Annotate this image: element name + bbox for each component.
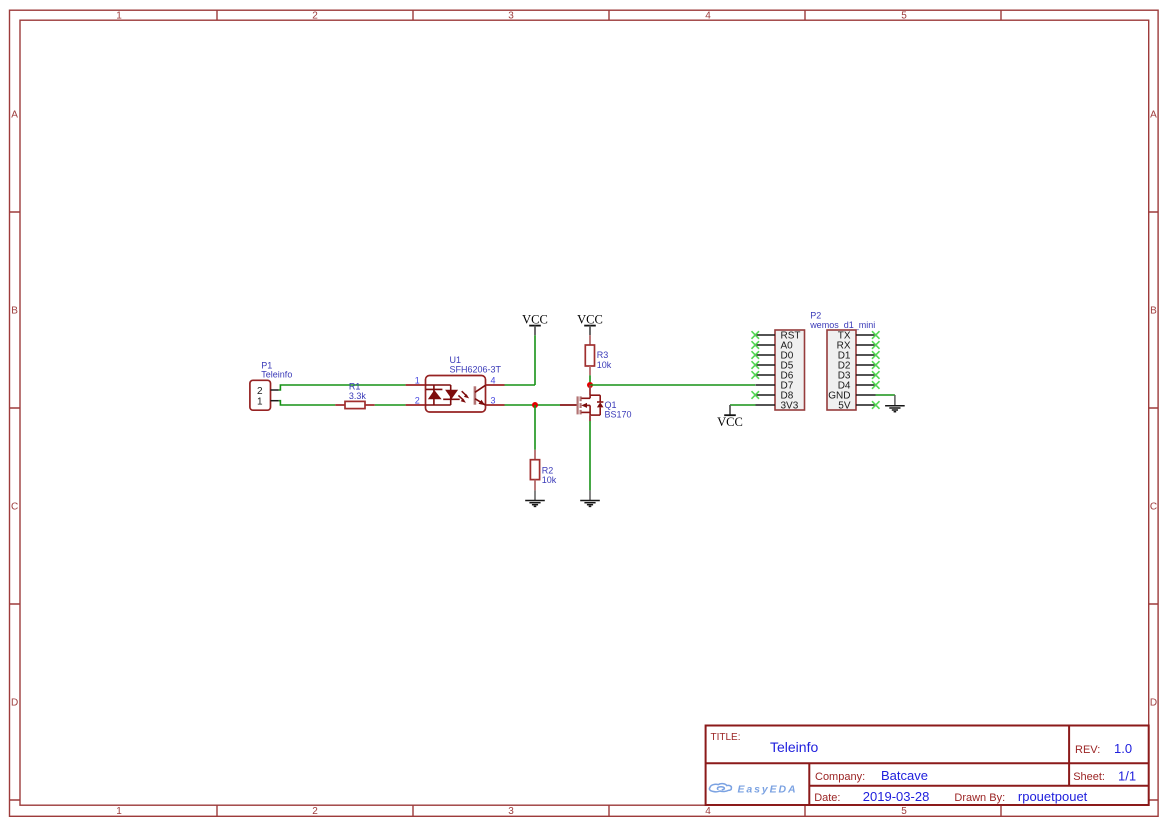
svg-text:Drawn By:: Drawn By: bbox=[954, 792, 1005, 804]
svg-text:C: C bbox=[1150, 502, 1157, 513]
svg-text:3V3: 3V3 bbox=[781, 401, 799, 412]
svg-text:3: 3 bbox=[508, 806, 514, 817]
wire 3V3 to VCC bbox=[730, 404, 756, 406]
svg-text:1: 1 bbox=[116, 806, 122, 817]
wire VCC1 drop bbox=[534, 335, 536, 385]
svg-text:Teleinfo: Teleinfo bbox=[261, 370, 292, 380]
svg-text:2: 2 bbox=[415, 396, 420, 406]
svg-text:1: 1 bbox=[116, 11, 122, 22]
junction node at R2/gate bbox=[532, 402, 538, 408]
svg-text:BS170: BS170 bbox=[605, 410, 632, 420]
frame column ticks bottom bbox=[217, 805, 1001, 816]
wire P1.1 to R1 bbox=[279, 401, 336, 405]
wire R2 drop bbox=[534, 405, 536, 450]
power VCC 1 bbox=[522, 313, 548, 336]
EasyEDA logo bbox=[709, 784, 797, 796]
frame row ticks left bbox=[10, 212, 21, 800]
svg-text:3: 3 bbox=[490, 396, 495, 406]
no-connect flags left bbox=[752, 331, 760, 399]
P1 pin 2 stub bbox=[271, 389, 279, 391]
resistor R1 bbox=[335, 401, 374, 408]
svg-text:Batcave: Batcave bbox=[881, 768, 928, 783]
svg-text:D: D bbox=[11, 698, 18, 709]
svg-text:Teleinfo: Teleinfo bbox=[770, 739, 818, 755]
P1 pin 1 stub bbox=[271, 400, 279, 402]
title block bbox=[706, 726, 1149, 806]
wire GND pin to ground bbox=[876, 394, 895, 396]
connector P2 right header bbox=[827, 330, 876, 412]
connector P2 left header bbox=[756, 330, 805, 412]
connector P1 bbox=[250, 380, 279, 410]
wire R3 to node bbox=[589, 375, 591, 385]
resistor R3 bbox=[585, 335, 594, 375]
svg-text:B: B bbox=[11, 306, 18, 317]
svg-text:rpouetpouet: rpouetpouet bbox=[1018, 789, 1088, 804]
wire node to P2 D7 bbox=[590, 384, 755, 386]
svg-text:A: A bbox=[11, 110, 18, 121]
resistor R2 bbox=[530, 450, 539, 491]
svg-text:U1: U1 bbox=[450, 355, 462, 365]
power VCC 2 bbox=[577, 313, 603, 336]
svg-text:4: 4 bbox=[490, 375, 495, 385]
svg-text:R1: R1 bbox=[349, 381, 361, 391]
svg-text:R2: R2 bbox=[542, 465, 554, 475]
svg-text:5: 5 bbox=[901, 11, 907, 22]
svg-text:4: 4 bbox=[705, 11, 711, 22]
wire U1.4 to VCC bbox=[505, 384, 536, 386]
svg-text:2019-03-28: 2019-03-28 bbox=[863, 789, 930, 804]
ground under R2 bbox=[525, 490, 545, 506]
wire R1 to U1.2 bbox=[375, 404, 406, 406]
no-connect flags right bbox=[872, 331, 880, 409]
opto-coupler U1 bbox=[406, 376, 505, 413]
svg-text:VCC: VCC bbox=[577, 313, 603, 327]
svg-text:VCC: VCC bbox=[717, 415, 743, 429]
svg-text:1: 1 bbox=[415, 375, 420, 385]
svg-text:3: 3 bbox=[508, 11, 514, 22]
wire P1.2 to U1.1 (net top) bbox=[279, 385, 406, 390]
svg-text:2: 2 bbox=[312, 11, 318, 22]
frame row ticks right bbox=[1149, 212, 1158, 800]
svg-text:4: 4 bbox=[705, 806, 711, 817]
wire U1.3 to Q1 gate bbox=[505, 404, 561, 406]
transistor Q1 bbox=[578, 385, 604, 421]
svg-text:EasyEDA: EasyEDA bbox=[738, 784, 798, 796]
svg-text:1: 1 bbox=[257, 396, 263, 407]
svg-text:VCC: VCC bbox=[522, 313, 548, 327]
svg-text:Sheet:: Sheet: bbox=[1073, 771, 1105, 783]
svg-text:A: A bbox=[1150, 110, 1157, 121]
svg-text:1/1: 1/1 bbox=[1118, 769, 1136, 784]
svg-text:SFH6206-3T: SFH6206-3T bbox=[450, 365, 502, 375]
svg-text:1.0: 1.0 bbox=[1114, 741, 1132, 756]
svg-text:REV:: REV: bbox=[1075, 744, 1100, 756]
svg-text:TITLE:: TITLE: bbox=[711, 732, 741, 743]
wire Q1 source to ground bbox=[589, 421, 591, 490]
svg-text:Date:: Date: bbox=[814, 792, 840, 804]
power VCC 3 (inverted) bbox=[717, 405, 743, 429]
junction node drain/D7 bbox=[587, 382, 593, 388]
ground at P2 bbox=[885, 395, 905, 412]
svg-text:3.3k: 3.3k bbox=[349, 391, 367, 401]
svg-text:10k: 10k bbox=[597, 360, 612, 370]
svg-text:5V: 5V bbox=[838, 401, 851, 412]
svg-text:R3: R3 bbox=[597, 350, 609, 360]
svg-text:10k: 10k bbox=[542, 475, 557, 485]
frame column ticks top bbox=[217, 10, 1001, 20]
svg-text:5: 5 bbox=[901, 806, 907, 817]
svg-text:wemos_d1_mini: wemos_d1_mini bbox=[809, 320, 875, 330]
wire gate lead bbox=[560, 404, 577, 406]
svg-text:C: C bbox=[11, 502, 18, 513]
ground under Q1 bbox=[580, 490, 600, 506]
svg-text:Q1: Q1 bbox=[605, 400, 617, 410]
svg-text:B: B bbox=[1150, 306, 1157, 317]
svg-text:Company:: Company: bbox=[815, 771, 865, 783]
svg-text:D: D bbox=[1150, 698, 1157, 709]
svg-text:2: 2 bbox=[312, 806, 318, 817]
